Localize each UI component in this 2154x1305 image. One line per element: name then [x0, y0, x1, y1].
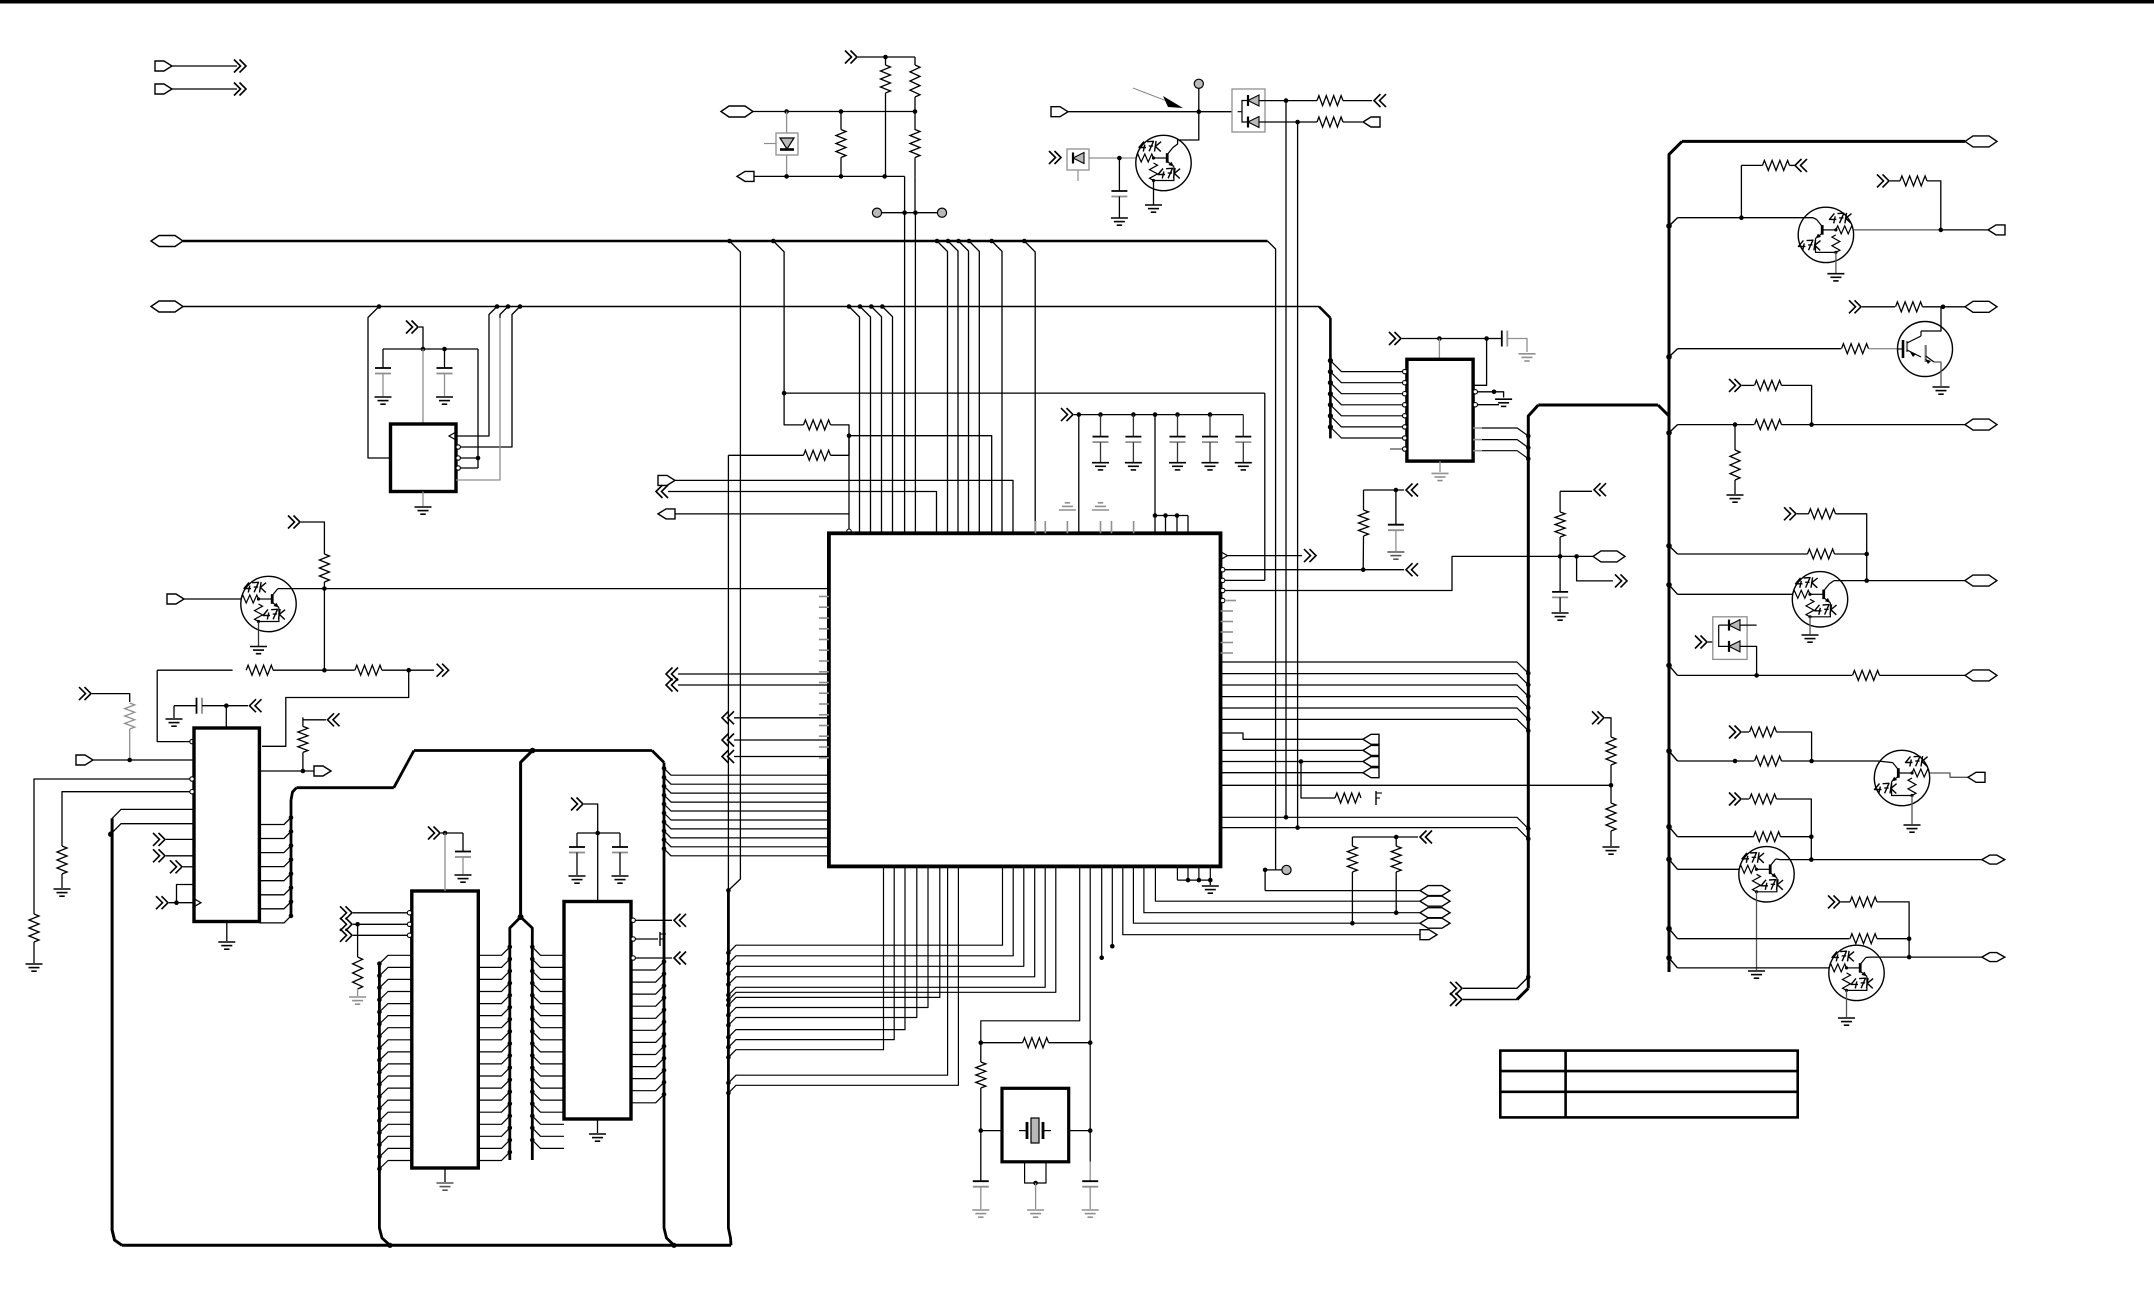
junction U4 lpin dot: [530, 1114, 535, 1119]
pin U2 b2: [456, 456, 460, 460]
wire y670 line: [157, 669, 232, 671]
chevron spare A: [234, 60, 241, 73]
wire Q3 out2: [1941, 229, 1988, 231]
chevron Q3 pullup: [1877, 174, 1884, 187]
dual diode D4a: [1729, 620, 1740, 631]
connector stageC out: [1965, 301, 1997, 312]
pin U1 left stub: [819, 606, 829, 608]
junction U4 lpin dot: [530, 945, 535, 950]
capacitor C U3: [196, 698, 198, 714]
wire stageJ line3: [1678, 967, 1830, 969]
ground Q6: [1904, 824, 1921, 826]
wire R21 bot: [1395, 872, 1397, 913]
wire U5 rpin: [478, 995, 510, 1003]
junction bus end dot: [1526, 975, 1531, 980]
wire x1264 down: [1264, 393, 1266, 580]
junction bus right dot: [1526, 671, 1531, 676]
wire tp vertical b: [914, 213, 916, 533]
ground capX1: [972, 1209, 989, 1211]
wire Q3 pullup b: [1927, 181, 1941, 230]
chevron capU3: [250, 699, 257, 712]
wire U1 bpin gnd: [1187, 866, 1189, 880]
junction U5 lpin dot: [377, 1143, 382, 1148]
wire U1 out514: [675, 513, 849, 515]
wire capU4b: [598, 832, 620, 834]
junction bus2 drop tap: [1328, 391, 1333, 396]
wire U1 out827: [1221, 828, 1529, 839]
wire U4 rpin: [631, 1046, 664, 1054]
wire U4 lpin: [532, 1068, 564, 1076]
junction VCC R1: [883, 55, 888, 60]
ground bypass: [1235, 462, 1252, 464]
wire capU2a bot: [382, 374, 384, 397]
wire U1 bpin S1: [728, 866, 939, 1005]
connector out: [1363, 745, 1379, 755]
wire U1 bpin S2: [728, 866, 1034, 984]
wire U5 lpin: [379, 1148, 411, 1156]
wire U3 gnd stub: [226, 922, 228, 942]
resistor R13: [353, 957, 363, 989]
wire R19 bot: [980, 1088, 982, 1131]
connector stageJ out: [1982, 953, 2005, 962]
wire U6 out391: [1478, 391, 1495, 393]
bus Y right branch: [521, 917, 533, 1160]
junction gnd tie: [1186, 878, 1191, 883]
wire capU5 wire: [462, 833, 464, 852]
wire mid cap gnd: [1559, 597, 1561, 612]
junction bottom bus b: [671, 1243, 676, 1248]
junction bus2 tap: [858, 304, 863, 309]
wire x728 upper: [727, 455, 729, 890]
junction stageE out: [1864, 578, 1869, 583]
junction bus2 tap: [847, 304, 852, 309]
junction U5 rpin dot: [508, 1102, 513, 1107]
junction bundle728 dot: [726, 1055, 731, 1060]
wire pullup Q2: [301, 522, 324, 554]
junction U3 clk: [174, 900, 179, 905]
junction IR diodebox: [1235, 109, 1240, 114]
wire D2a vertical: [1285, 101, 1287, 818]
wire U1 bpin gnd: [1198, 866, 1200, 880]
wire capU3 gnd: [173, 706, 175, 718]
junction U5 lpin dot: [377, 1155, 382, 1160]
pin U1 b590: [1221, 588, 1225, 592]
pin U1 left stub: [819, 725, 829, 727]
wire U3 r1: [303, 719, 326, 721]
connector out mid: [1420, 896, 1450, 906]
connector lineA left: [721, 106, 753, 117]
wire bus1 tap: [948, 241, 958, 252]
wire U1 bpin S1: [728, 866, 894, 1047]
chevron U1 in685: [666, 679, 673, 692]
capacitor C U2b: [437, 367, 453, 369]
wire cap gnd stub: [1100, 442, 1102, 462]
junction U4 lpin dot: [530, 993, 535, 998]
capacitor C mid: [1552, 591, 1568, 593]
junction TP4: [1263, 868, 1268, 873]
wire U1 out: [1221, 772, 1364, 774]
wire D4a out: [1740, 624, 1757, 626]
connector U1 out514: [658, 509, 675, 519]
ground capX2: [1082, 1209, 1099, 1211]
wire y670 line3: [382, 669, 434, 671]
chevron U3 clk: [156, 896, 163, 909]
wire R16 y490: [1364, 489, 1405, 491]
resistor R5: [1317, 96, 1343, 106]
bus thick diag: [394, 751, 414, 788]
pin U4 b958: [631, 956, 635, 960]
ground xtal case: [1027, 1209, 1044, 1211]
wire Rtop1 stub2: [885, 93, 887, 176]
wire stageJ out: [1870, 956, 1982, 958]
wire R16 top: [1363, 490, 1365, 510]
junction U5 lpin dot: [377, 961, 382, 966]
junction stageC: [1941, 305, 1946, 310]
wire cap gnd stub: [1242, 442, 1244, 462]
capacitor C X1: [973, 1180, 989, 1182]
wire Q3 out: [1853, 229, 1940, 231]
wire U3 pin779: [34, 779, 190, 914]
wire Q8 gnd: [1846, 990, 1848, 1017]
wire rail drop2: [1154, 415, 1156, 516]
junction xtal case: [1033, 1181, 1038, 1186]
junction x112: [108, 831, 114, 837]
wire U3 in chev: [166, 838, 194, 840]
resistor R39: [1850, 897, 1877, 907]
bus thick top right: [1682, 140, 1965, 143]
ground R11: [26, 963, 43, 965]
capacitor C bypass: [1202, 436, 1218, 438]
chevron U5 in: [340, 918, 347, 931]
junction U3 rpin dot: [289, 886, 294, 891]
junction U4 lpin dot: [530, 969, 535, 974]
wire U3 pin791: [62, 792, 190, 846]
wire bus2 tap: [871, 307, 881, 319]
wire U3 rpin: [259, 846, 291, 853]
junction lineB zener: [784, 174, 789, 179]
junction U4 lpin dot: [530, 1053, 535, 1058]
junction U3 rpin dot: [289, 914, 294, 919]
wire stageB line2: [1869, 348, 1898, 350]
junction bus1669 G: [1666, 663, 1672, 669]
junction bus2 tap U2r: [495, 304, 500, 309]
junction bus2 tap: [880, 304, 885, 309]
wire R13 top: [357, 924, 359, 957]
wire U1 lpin peel: [664, 804, 829, 811]
junction U3 rpin dot: [289, 871, 294, 876]
resistor R24: [1842, 344, 1869, 354]
transistor Q5: [1792, 572, 1847, 627]
bus bottom: [122, 1244, 731, 1247]
wire Q5 gnd: [1809, 617, 1811, 634]
wire U4 lpin: [532, 971, 564, 979]
wire bus1 corner down: [1268, 241, 1276, 870]
wire capQ1 bot: [1118, 197, 1120, 219]
wire bus1 vertical to U1: [968, 252, 970, 533]
wire Q8 coll: [1866, 956, 1870, 958]
junction U4 lpin dot: [530, 1077, 535, 1082]
pin U1 left stub: [819, 628, 829, 630]
wire stageA line: [1678, 217, 1814, 219]
junction bus2 tap U2r: [518, 304, 523, 309]
pin U1 top stub: [1100, 521, 1102, 533]
wire VCC top: [858, 56, 915, 58]
wire bus1669 jog A: [1669, 218, 1678, 226]
wire U1 in740: [734, 739, 829, 741]
junction bus1 tap: [935, 239, 940, 244]
ground bypass: [1169, 462, 1186, 464]
wire bus1 vertical to U1: [957, 252, 959, 533]
bus thick drop x520: [521, 751, 533, 918]
wire U1 bpin gnd: [1209, 866, 1211, 880]
resistor R35: [1750, 727, 1777, 737]
wire cap gnd stub: [1132, 442, 1134, 462]
wire U1 lpin peel: [664, 768, 829, 775]
junction lineB R3: [839, 174, 844, 179]
junction row946 pin: [1110, 944, 1115, 949]
junction stageA: [1739, 215, 1744, 220]
junction U1 lpin dot: [662, 820, 667, 825]
resistor R20: [1347, 846, 1357, 872]
wire U4 rpin: [631, 1094, 664, 1102]
ground capQ1: [1111, 217, 1128, 219]
wire U5 rpin: [478, 1080, 510, 1088]
wire TP2: [915, 212, 937, 214]
resistor R36: [1755, 756, 1782, 766]
junction bus right dot: [1526, 683, 1531, 688]
bus thick elbow 652: [652, 751, 664, 763]
IC U2: [391, 424, 457, 492]
ground bypass: [1202, 462, 1219, 464]
ground capU5: [455, 874, 472, 876]
junction bus2 tap: [869, 304, 874, 309]
zener diode D1: [780, 138, 794, 149]
wire capX1 gnd: [980, 1187, 982, 1209]
wire bus1 tap: [937, 241, 948, 252]
wire U5 rpin: [478, 1092, 510, 1100]
wire U5 lpin: [379, 1112, 411, 1120]
junction U5 rpin dot: [508, 1138, 513, 1143]
junction bus 827 dot: [1526, 837, 1531, 842]
wire U6 gnd wire: [1494, 392, 1504, 398]
wire U5 in: [353, 912, 408, 914]
chevron U5 in: [340, 929, 347, 942]
wire U1 to bus: [1221, 708, 1529, 719]
chevron U5 in: [340, 906, 347, 919]
chevron U1 in740: [722, 734, 729, 747]
pin U1 top stub: [1133, 521, 1135, 533]
connector top right: [1965, 136, 1997, 147]
wire capU2b bot: [444, 374, 446, 397]
connector stageE out: [1965, 575, 1997, 586]
wire U3 pin809: [112, 809, 194, 818]
wire stageJ drop: [1908, 939, 1910, 957]
bus right corner: [1669, 141, 1682, 972]
chevron y490: [1406, 484, 1413, 497]
wire U5 lpin: [379, 1100, 411, 1108]
wire U1 lpin peel: [664, 849, 829, 856]
ground Q4: [1933, 386, 1950, 388]
wire U4 gnd stub: [597, 1119, 599, 1133]
wire TP1: [882, 212, 916, 214]
chevron U3 in1: [79, 687, 86, 700]
junction U3 rpin dot: [289, 829, 294, 834]
ground Q5: [1802, 634, 1819, 636]
junction bundle728 dot: [726, 1081, 731, 1086]
wire stageD line2: [1835, 553, 1867, 555]
junction tri: [1163, 513, 1168, 518]
wire R5 out: [1343, 100, 1372, 102]
wire div a: [1605, 718, 1611, 737]
wire stageE out line: [1834, 580, 1965, 582]
wire U5 lpin: [379, 1161, 411, 1169]
junction bus1669 B: [1666, 354, 1672, 360]
junction bus right dot: [1526, 728, 1531, 733]
ground R12: [54, 888, 71, 890]
wire U2 cap rail: [383, 348, 478, 350]
wire rail tri: [1155, 515, 1188, 517]
junction U5 rpin dot: [508, 1089, 513, 1094]
wire bus2 vertical to U1: [881, 318, 883, 533]
pin U6 bubble: [1403, 414, 1407, 418]
bus right Y: [1658, 405, 1669, 416]
wire cap stub: [1242, 415, 1244, 437]
wire U3 rpin: [259, 874, 291, 881]
junction bundle728 dot: [726, 972, 731, 977]
wire mid556 line: [1543, 555, 1593, 557]
pin U6 out stub: [1473, 450, 1482, 452]
resistor R3: [836, 130, 846, 158]
connector out: [1363, 757, 1379, 767]
junction D4: [1716, 640, 1721, 645]
wire bus2: [183, 306, 1319, 308]
ground U6: [1432, 472, 1449, 474]
junction bus2 drop tap: [1328, 380, 1333, 385]
wire U1 to bus: [1221, 662, 1529, 673]
junction out570: [1361, 567, 1366, 572]
chevron U1 in491: [656, 485, 663, 498]
junction R10: [301, 769, 306, 774]
junction Q3 out: [1939, 228, 1944, 233]
wire RR a top: [1351, 837, 1353, 846]
wire R6 out: [1343, 121, 1362, 123]
junction bus1669 E: [1666, 582, 1672, 588]
bus bundle x379: [379, 964, 390, 1246]
wire R12 bot: [61, 874, 63, 888]
dual diode D4b: [1729, 641, 1740, 652]
pin U6 b404: [1473, 403, 1477, 407]
chevron stageC2: [1729, 379, 1736, 392]
resistor R29: [1555, 512, 1565, 537]
junction RR: [1394, 835, 1399, 840]
pin U5 bubble: [407, 911, 411, 915]
wire TP3 stub: [1198, 88, 1200, 111]
junction stageI a: [1809, 834, 1814, 839]
wire bus2 tap: [860, 307, 871, 319]
wire U1 bpin S1: [728, 866, 916, 1025]
wire stageD pull a: [1797, 513, 1809, 515]
wire U2 rail drop: [477, 349, 479, 468]
transistor Q2: [241, 576, 296, 631]
chevron stageH pull: [1729, 726, 1736, 739]
dual diode D4 box: [1713, 617, 1747, 660]
wire capU4a v: [576, 833, 578, 847]
wire R19 top: [980, 1043, 982, 1062]
junction U5 rpin dot: [508, 993, 513, 998]
pin U1 right stub: [1221, 652, 1234, 654]
wire U1 in491: [668, 492, 937, 534]
zener diode D3: [1073, 153, 1084, 164]
wire stageI line: [1678, 836, 1754, 838]
junction U5 lpin dot: [377, 998, 382, 1003]
connector Q3 out: [1988, 225, 2005, 235]
junction U1 lpin dot: [662, 766, 667, 771]
wire U4 lpin: [532, 959, 564, 967]
wire U4 vcc: [584, 804, 598, 902]
capacitor C bypass: [1093, 436, 1109, 438]
junction R20: [1350, 921, 1355, 926]
wire U5 rpin: [478, 1116, 510, 1124]
wire U6 vcc loop: [1473, 339, 1487, 386]
junction U4 lpin dot: [530, 1017, 535, 1022]
capacitor C bypass: [1125, 436, 1141, 438]
junction stageC j2: [1809, 422, 1814, 427]
wire U4 lpin: [532, 1140, 564, 1148]
junction TP line a: [902, 210, 907, 215]
wire U1 bpin S2: [728, 866, 1013, 963]
wire U1 in674: [678, 673, 829, 675]
wire U1 lpin peel: [664, 813, 829, 820]
connector U3 in2: [76, 755, 93, 765]
junction stageG: [1754, 673, 1759, 678]
wire U5 in: [353, 923, 408, 925]
wire U4 rpin: [631, 998, 664, 1006]
resistor R38: [1754, 832, 1781, 842]
resistor R6: [1317, 117, 1343, 127]
wire U4 lpin: [532, 983, 564, 991]
junction bus1 tap: [1022, 239, 1027, 244]
wire R22b: [1790, 164, 1796, 166]
wire U1 bpin S2: [728, 866, 1023, 974]
chevron VCC top: [845, 51, 852, 64]
wire U5 rpin: [478, 1031, 510, 1039]
wire Q7 gnd: [1756, 892, 1758, 970]
wire div b: [1610, 765, 1612, 785]
wire Rtop1 stub: [885, 57, 887, 65]
wire mid556 drop: [1577, 556, 1613, 581]
junction bundle728 dot: [726, 1091, 731, 1096]
resistor R18: [1023, 1038, 1049, 1048]
junction bus1669 I2: [1666, 857, 1672, 863]
wire stageH pull b: [1777, 732, 1812, 761]
ground U1 bottom: [1202, 885, 1219, 887]
bus thick y756: [414, 749, 652, 752]
bus right x1528 end: [1517, 988, 1528, 999]
wire U3 vcc pin: [225, 706, 227, 728]
chevron mid556: [1594, 483, 1601, 496]
wire capU4a: [577, 832, 598, 834]
pin U1 left stub: [819, 682, 829, 684]
chevron y670: [437, 664, 444, 677]
ground U6 pins: [1495, 398, 1512, 400]
ground Q2: [250, 646, 267, 648]
junction 827 diodewire: [1295, 825, 1300, 830]
wire U6 lpin: [1330, 394, 1404, 405]
pin U6 stub8: [1390, 448, 1405, 450]
wire Q3 coll tie: [1813, 218, 1817, 220]
wire bus2 tap to U2: [368, 307, 390, 459]
pin U1 left stub: [819, 757, 829, 759]
